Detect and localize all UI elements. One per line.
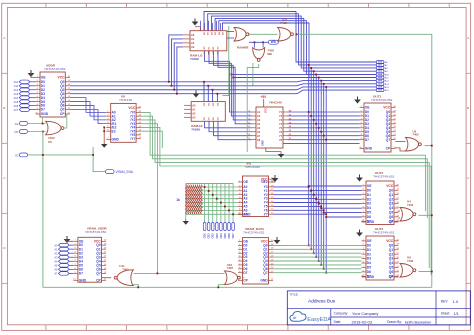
wire RAM-HI pin 0 to 540: [205, 121, 252, 128]
junction bus bottom 5: [320, 264, 322, 266]
wire RAM-LO A0 down: [169, 35, 183, 82]
wire OUT2 D3: [316, 198, 361, 200]
wire OUT2 D5: [321, 207, 361, 209]
junction IO: [42, 154, 44, 156]
wire 540 out 7 to OUT1: [288, 139, 360, 141]
wire drop to RAM-HI pin 2: [212, 90, 214, 102]
svg-text:Q7: Q7: [60, 108, 65, 112]
svg-text:A2: A2: [15, 122, 19, 126]
svg-text:1.0: 1.0: [453, 299, 459, 304]
wire A1 horizontal: [70, 84, 376, 86]
gate WE 7402: [253, 48, 265, 59]
junction OUT1 row 7: [325, 139, 327, 141]
wire RAM-LO top pin: [216, 21, 218, 31]
svg-text:D1: D1: [367, 193, 371, 197]
connector pin CD5: [224, 223, 227, 231]
wire resistor row 4: [186, 202, 238, 204]
wire resistor drop 3: [216, 184, 218, 223]
svg-text:D4: D4: [367, 261, 371, 265]
svg-text:1/1: 1/1: [454, 312, 459, 316]
wire resistor row 6: [186, 209, 238, 211]
title block: [287, 291, 470, 325]
junction OUT1 row 6: [323, 135, 325, 137]
junction resistor 3: [216, 198, 218, 200]
wire RAM-HI pin 1 to 540: [209, 121, 252, 131]
junction IN1 Y4: [318, 202, 320, 204]
svg-text:RAMWE: RAMWE: [237, 46, 249, 50]
junction long vertical: [157, 273, 159, 275]
junction RAM-HI drop 2: [212, 89, 214, 91]
wire IN1 Y6: [273, 209, 324, 211]
wire ADDR Q4 to U8: [70, 98, 106, 113]
svg-text:EasyEDA: EasyEDA: [307, 317, 331, 323]
ground flag IN1 OE2: [272, 178, 279, 182]
port A11: [19, 84, 30, 88]
wire RAM-HI pin 2 to 540: [214, 121, 252, 135]
junction ICP out: [296, 33, 298, 35]
wire RAM-LO top pin: [220, 23, 222, 31]
svg-text:CD7: CD7: [231, 233, 235, 239]
wire OE2 tie: [272, 181, 276, 182]
port A17: [19, 108, 30, 112]
svg-text:TITLE:: TITLE:: [290, 292, 299, 296]
junction U6 input: [42, 131, 44, 133]
svg-text:Q0: Q0: [389, 243, 394, 247]
junction IN1 Y3: [315, 198, 317, 200]
wire U8 Y0 to right gates: [141, 112, 426, 211]
svg-text:Q5: Q5: [389, 266, 394, 270]
wire RAM-LO pin 1 to 540: [209, 51, 252, 116]
svg-text:A0: A0: [191, 33, 195, 37]
wire RAM-LO A3 down: [177, 47, 183, 94]
svg-text:GND: GND: [365, 147, 373, 151]
svg-text:A4: A4: [54, 260, 58, 264]
wire left vertical: [42, 132, 44, 288]
svg-text:Sheet:: Sheet:: [441, 312, 450, 316]
wire top loop 5: [223, 23, 377, 78]
wire RAM-LO top pin: [204, 23, 206, 31]
wire U11 in1 to U10 in2: [134, 272, 225, 274]
port WS: [268, 40, 278, 44]
ground U8: [103, 142, 105, 145]
wire RAM-LO top pin: [208, 21, 210, 31]
wire VRAM_DATA Q1: [273, 248, 362, 250]
wire top loop 3: [215, 18, 376, 71]
junction IN1 Y1: [310, 190, 312, 192]
junction A5 staircase: [232, 77, 234, 79]
port VA0: [59, 243, 70, 247]
port A01: [376, 63, 384, 66]
wire 540 out 3 to OUT1: [288, 123, 360, 125]
port A16: [19, 104, 30, 108]
svg-text:VCC: VCC: [386, 239, 394, 243]
svg-text:D7: D7: [41, 108, 45, 112]
port A15: [19, 100, 30, 104]
wire resistor drop 1: [208, 184, 210, 223]
junction E3: [103, 130, 105, 132]
svg-text:A2: A2: [192, 111, 196, 115]
svg-text:7402: 7402: [280, 21, 287, 25]
svg-text:E3: E3: [112, 129, 116, 133]
wire drop to RAM-HI pin 3: [216, 94, 218, 102]
wire resistor row 5: [186, 206, 238, 208]
junction OUT2 D1: [310, 190, 312, 192]
wire ADDR Q5 to U8: [70, 102, 106, 117]
svg-text:D1: D1: [367, 248, 371, 252]
svg-text:D7: D7: [365, 138, 369, 142]
svg-text:A1: A1: [54, 247, 58, 251]
junction OUT2 D5: [320, 207, 322, 209]
wire VRAM_DATA Q5: [273, 264, 362, 266]
svg-text:7402: 7402: [227, 266, 234, 270]
gate U11 7402: [117, 270, 133, 286]
wire OUT2 D0: [309, 185, 362, 187]
svg-text:74HC574N.652: 74HC574N.652: [371, 98, 393, 102]
junction OUT1 row 0: [308, 111, 310, 113]
wire A5 horizontal: [233, 77, 376, 79]
junction E2: [103, 127, 105, 129]
wire U3 out: [425, 145, 432, 147]
wire WE in2 drop: [262, 42, 264, 47]
wire 540 gnd: [266, 148, 281, 152]
port A06: [376, 79, 384, 82]
svg-text:74HC574N.652: 74HC574N.652: [85, 230, 107, 234]
svg-text:Address Bus: Address Bus: [308, 299, 336, 305]
svg-text:CD6: CD6: [227, 233, 231, 239]
IC OUT2 74HC574N.652: [366, 181, 394, 225]
wire RAMWE.2 WS: [249, 41, 268, 43]
EasyEDA logo: [290, 311, 306, 321]
svg-text:7402: 7402: [122, 267, 129, 271]
IC IN1 74HC540N: [243, 176, 269, 217]
wire resistor drop 0: [204, 184, 206, 223]
svg-text:A2: A2: [191, 41, 195, 45]
svg-text:GND: GND: [243, 213, 251, 217]
junction bus bottom 7: [325, 272, 327, 274]
svg-text:D4: D4: [367, 206, 371, 210]
wire top loop 2: [211, 16, 376, 68]
svg-text:Q6: Q6: [389, 215, 394, 219]
wire ADDR GND down: [42, 117, 44, 124]
svg-text:A3: A3: [192, 115, 196, 119]
svg-text:74HC574N.652: 74HC574N.652: [44, 67, 66, 71]
wire top loop 4: [219, 21, 376, 75]
IC VRAM_ADDR 74HC574N.652: [78, 237, 102, 282]
wire +5V: [263, 99, 265, 107]
junction resistor 1: [208, 190, 210, 192]
wire U10 out to CP: [243, 277, 244, 279]
wire VRAM_DATA Q2: [273, 252, 362, 254]
svg-text:A: A: [3, 36, 5, 40]
wire U8 Y5 stub: [141, 131, 163, 148]
port A08: [376, 85, 384, 88]
svg-text:74HC574N.652: 74HC574N.652: [373, 174, 395, 178]
junction OUT1 row 3: [315, 123, 317, 125]
ground flag VRAM_DATA: [274, 240, 281, 244]
svg-text:74189: 74189: [191, 128, 200, 132]
port A2 gate input: [19, 122, 27, 126]
junction bus top 6: [323, 83, 325, 85]
junction OUT2 D6: [323, 212, 325, 214]
gate U4 7402: [400, 208, 413, 222]
wire resistor row 2: [186, 194, 238, 196]
svg-text:A1: A1: [191, 37, 195, 41]
svg-text:A14: A14: [14, 96, 19, 100]
svg-text:CD2: CD2: [211, 233, 215, 239]
wire ADDR Q6 to U8: [70, 106, 106, 120]
wire RAM-LO to RAMWE 2: [227, 37, 234, 39]
svg-text:7402: 7402: [412, 133, 419, 137]
wire U8 Y1 to right gates: [141, 116, 428, 218]
wire U10 in3 tap: [218, 285, 224, 288]
svg-text:VCC: VCC: [386, 184, 394, 188]
svg-text:D2: D2: [367, 197, 371, 201]
resistor R1: [186, 185, 188, 215]
wire 540 out 6 to OUT1: [288, 135, 360, 137]
junction RAM-HI drop 3: [217, 93, 219, 95]
svg-text:A10: A10: [14, 80, 19, 84]
junction RAM-HI drop 0: [203, 81, 205, 83]
svg-text:2019-02-03: 2019-02-03: [352, 319, 373, 324]
svg-text:74HC574N.652: 74HC574N.652: [243, 230, 265, 234]
port A02: [376, 66, 384, 69]
port VA1: [59, 247, 70, 251]
resistor R3: [190, 185, 192, 215]
port A04: [376, 73, 384, 76]
svg-text:7402: 7402: [407, 203, 414, 207]
svg-text:Q2: Q2: [389, 197, 394, 201]
svg-text:D3: D3: [367, 202, 371, 206]
svg-text:VCC: VCC: [383, 106, 391, 110]
junction bus bottom 3: [315, 256, 317, 258]
port A14: [19, 96, 30, 100]
wire VRAM_DATA Q6: [273, 268, 362, 270]
wire RAM WE link: [223, 26, 229, 96]
svg-text:A: A: [467, 36, 469, 40]
gate U10 7402: [225, 271, 238, 285]
wire drop to RAM-HI pin 1: [207, 86, 209, 102]
svg-text:VRAM_ENA: VRAM_ENA: [116, 170, 134, 174]
wire U9 out: [418, 271, 431, 273]
svg-text:WS: WS: [271, 40, 276, 44]
wire E2 E3 to gnd: [103, 127, 105, 141]
wire VRAM_DATA Q7: [273, 272, 362, 274]
IC OUT3 74HC574N.652: [366, 236, 394, 280]
wire resistor drop 5: [224, 184, 226, 223]
wire U8 Y3 long down to U10: [141, 124, 158, 274]
svg-text:D6: D6: [367, 215, 371, 219]
junction resistor 0: [204, 186, 206, 188]
svg-text:keith.nicewarner: keith.nicewarner: [405, 320, 432, 324]
port A09: [376, 89, 384, 92]
svg-text:D5: D5: [367, 266, 371, 270]
IC ADDR 74HC574N.652: [40, 72, 65, 117]
svg-text:Your Company: Your Company: [352, 311, 378, 316]
junction OUT2 D2: [313, 194, 315, 196]
wire resistor row 7: [186, 213, 238, 215]
wire drop to RAM-HI pin 0: [203, 82, 205, 102]
wire RAM-LO pin 2 to 540: [214, 51, 252, 120]
junction OUT2 D3: [315, 198, 317, 200]
connector pin CD0: [203, 223, 206, 231]
IC RAM-HI 74189: [191, 102, 225, 122]
gate RAMWE 7402: [234, 28, 246, 42]
junction resistor 2: [212, 194, 214, 196]
svg-text:D0: D0: [367, 243, 371, 247]
svg-text:OE: OE: [367, 239, 373, 243]
port A12: [19, 88, 30, 92]
wire RAM-LO top pin: [212, 23, 214, 31]
junction resistor 7: [232, 213, 234, 215]
junction bus bottom 1: [310, 248, 312, 250]
svg-text:D5: D5: [367, 211, 371, 215]
wire ICP out loop: [295, 34, 432, 287]
svg-text:CD3: CD3: [215, 233, 219, 239]
svg-text:D6: D6: [367, 270, 371, 274]
junction bus top 2: [313, 70, 315, 72]
svg-text:74189: 74189: [190, 57, 199, 61]
junction bus top 1: [310, 67, 312, 69]
svg-text:74HC574N.652: 74HC574N.652: [373, 230, 395, 234]
junction IN1 Y0: [308, 186, 310, 188]
wire U8 Y4 to right gates: [141, 127, 432, 275]
svg-text:A2: A2: [54, 251, 58, 255]
svg-text:A11: A11: [14, 84, 19, 88]
svg-text:CD1: CD1: [207, 233, 211, 239]
wire OUT2 D6: [324, 212, 362, 214]
connector pin CD6: [228, 223, 231, 231]
junction IN1 Y2: [313, 194, 315, 196]
connector pin CD4: [220, 223, 223, 231]
svg-text:B: B: [467, 106, 469, 110]
svg-text:A5: A5: [54, 264, 58, 268]
svg-text:CP: CP: [14, 130, 18, 134]
wire U11 in2 from bottom loop: [134, 285, 139, 288]
svg-text:A7: A7: [54, 272, 58, 276]
resistor R2: [188, 185, 190, 215]
connector pin CD7: [232, 223, 235, 231]
junction IN1 Y6: [323, 209, 325, 211]
junction bus top 5: [320, 80, 322, 82]
bus vertical 2: [313, 71, 315, 253]
wire resistor drop 4: [220, 184, 222, 223]
port A03: [376, 70, 384, 73]
svg-text:A3: A3: [54, 255, 58, 259]
svg-text:CD5: CD5: [223, 233, 227, 239]
bus vertical 3: [315, 74, 317, 257]
frame ticks left and right: [2, 72, 8, 74]
wire RAM-LO A2 down: [174, 43, 182, 90]
wire resistor drop 2: [212, 184, 214, 223]
junction OUT2 D7: [325, 216, 327, 218]
wire OUT1 to U3 in2: [396, 148, 406, 151]
junction U4 out: [431, 214, 433, 216]
junction IN1 Y5: [320, 206, 322, 208]
wire bottom loop: [43, 286, 432, 288]
wire top loop 1: [208, 14, 377, 65]
wire VRAM_ENA: [93, 147, 105, 172]
wire WE out down: [247, 64, 259, 152]
port A05: [376, 76, 384, 79]
wire IN1 Y0: [273, 186, 309, 188]
port VA7: [59, 272, 70, 276]
wire RAM-LO top pin: [200, 21, 202, 31]
connector pin CD3: [216, 223, 219, 231]
svg-text:74HC540: 74HC540: [269, 101, 282, 105]
wire RAM-LO pin 0 to 540: [205, 51, 252, 112]
wire VRAM_DATA Q0: [273, 244, 362, 246]
svg-text:GND: GND: [79, 278, 87, 282]
port VA5: [59, 264, 70, 268]
wire IN1 Y7: [273, 213, 326, 215]
junction bus top 7: [325, 86, 327, 88]
junction OUT2 D0: [308, 185, 310, 187]
ground flag RAM-LO: [192, 22, 199, 26]
svg-text:CP: CP: [96, 278, 101, 282]
wire top loop 0: [204, 12, 376, 63]
svg-text:Y7: Y7: [264, 212, 268, 216]
wire WE branch: [252, 63, 254, 86]
svg-text:A16: A16: [14, 104, 19, 108]
wire RAMWE to ICP: [249, 33, 278, 35]
svg-text:Q0: Q0: [389, 188, 394, 192]
IC 74HC540: [256, 107, 283, 148]
ground flag VRAM_ADDR: [64, 239, 71, 243]
wire gnd to pin1: [195, 26, 200, 28]
junction bus bottom 4: [318, 260, 320, 262]
svg-text:A15: A15: [14, 100, 19, 104]
junction GND A2: [42, 123, 44, 125]
wire U6 out to ADDR CP: [64, 114, 67, 128]
svg-text:Company:: Company:: [334, 312, 349, 316]
svg-text:A6: A6: [54, 268, 58, 272]
svg-text:A17: A17: [14, 108, 19, 112]
junction bus top 0: [308, 64, 310, 66]
svg-text:D7: D7: [79, 272, 83, 276]
wire VRAM_ADDR CP to U11 out: [102, 277, 112, 279]
svg-text:D3: D3: [367, 257, 371, 261]
svg-text:OE2: OE2: [261, 180, 268, 184]
junction ADDR Q2: [173, 89, 175, 91]
port A00: [376, 61, 384, 64]
wire VRAM_DATA Q4: [273, 260, 362, 262]
junction bus bottom 6: [323, 268, 325, 270]
wire IO: [28, 154, 94, 156]
wire 540 out 1 to OUT1: [288, 115, 360, 117]
junction OUT1 row 1: [310, 115, 312, 117]
wire RAM-LO to RAMWE 1: [227, 31, 234, 33]
junction U11 loop tap: [137, 286, 139, 288]
ground flag ADDR OE: [28, 73, 35, 77]
junction bus top 4: [318, 77, 320, 79]
svg-text:GND: GND: [41, 112, 49, 116]
svg-text:CP: CP: [243, 278, 248, 282]
svg-text:CP: CP: [386, 147, 391, 151]
svg-text:OE: OE: [365, 106, 371, 110]
wire A4 horizontal: [231, 73, 376, 75]
junction VRAM_ENA branch: [92, 154, 94, 156]
green: resistor rows to IN1: [186, 183, 233, 185]
resistor R8: [200, 185, 202, 215]
junction U3 out: [431, 145, 433, 147]
ground resistor rail: [185, 219, 187, 222]
svg-text:Q7: Q7: [386, 138, 391, 142]
port VRAM_ENA: [106, 170, 115, 174]
junction OUT1 row 2: [313, 119, 315, 121]
wire OE tie: [31, 73, 36, 78]
junction ADDR Q3: [176, 93, 178, 95]
wire OUT1 cp: [283, 143, 360, 145]
